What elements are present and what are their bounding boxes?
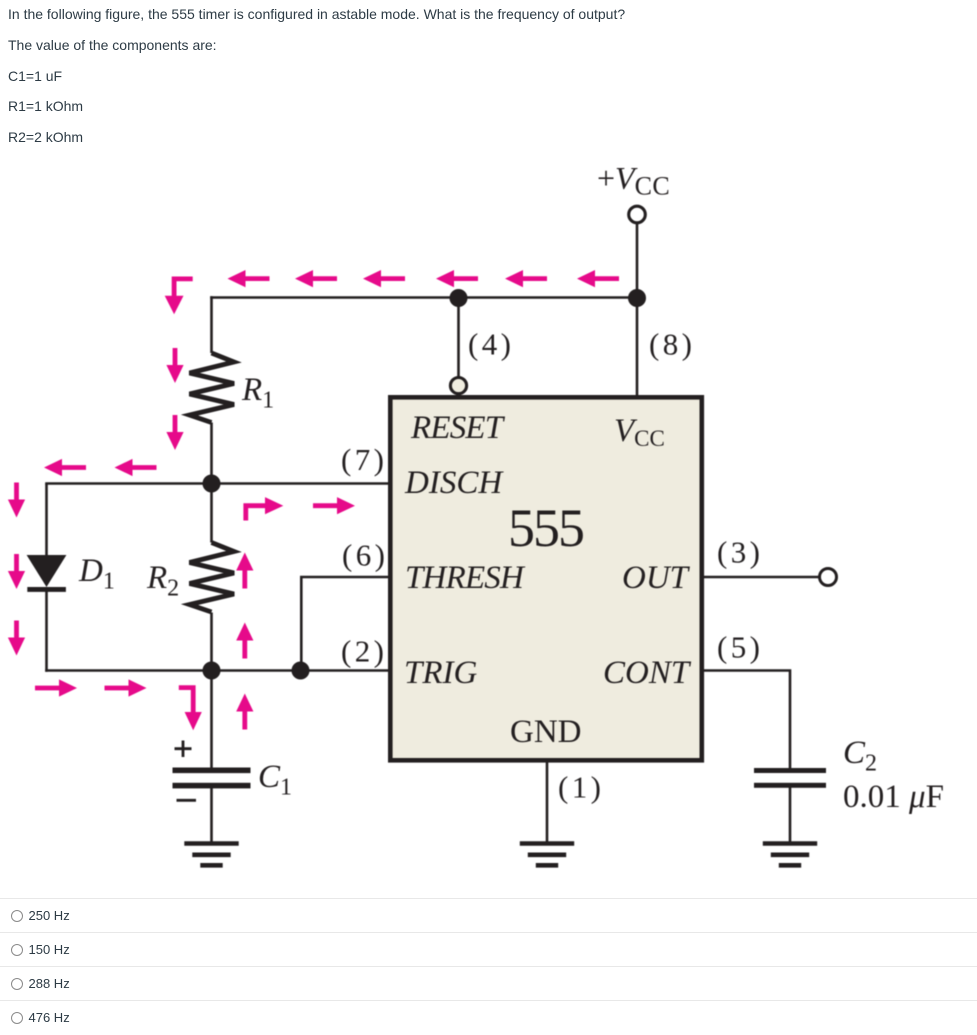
corner arrow top-left (down) [174,279,193,296]
C1 minus sign [177,799,197,802]
arrow up beside R2 top [236,553,253,589]
resistor R2 [190,543,235,613]
corner arrow into pin7 (right) [246,506,266,521]
node junction top pin4 [450,289,468,307]
wire R1 to DISCH node [210,423,213,485]
555 timer box U1 [390,397,702,760]
arrow top rail 4 [436,270,478,287]
current flow arrows (magenta) [8,270,619,730]
arrow down far-left 1 [8,483,25,518]
wire left vertical to R1 [210,296,213,353]
wire GND pin 1 [546,762,549,843]
arrow top rail 5 [505,270,547,287]
terminal pin 4 reset [450,378,466,394]
wire pin 4 drop [457,298,460,380]
svg-text:DISCH: DISCH [404,465,504,501]
svg-text:D1: D1 [78,553,115,595]
svg-text:C1: C1 [258,759,292,801]
wire left vertical to diode [45,484,48,557]
svg-text:0.01 μF: 0.01 μF [843,779,944,815]
diode D1 [27,555,67,592]
svg-text:(1): (1) [558,770,604,805]
arrow down R1 column 2 [166,415,183,450]
arrow up beside R2 bottom [236,623,253,659]
arrow top rail 1 [228,270,270,287]
arrow top rail 6 [577,270,619,287]
ground (C2) [763,844,817,866]
node junction TRIG left [203,662,221,680]
capacitor C1 [173,768,251,789]
C1 plus sign [175,741,192,758]
wire DISCH horizontal pin 7 [45,482,390,485]
answer options [0,898,977,933]
svg-text:(6): (6) [342,538,388,573]
arrow left DISCH row 2 [115,459,157,476]
wire C2 to ground [789,787,792,843]
arrow top rail 2 [295,270,337,287]
wire diode to bottom rail [45,590,48,672]
wire THRESH pin 6 [301,577,390,671]
svg-text:(4): (4) [468,327,514,362]
node junction DISCH [203,475,221,493]
svg-text:(8): (8) [649,327,695,362]
svg-text:(5): (5) [717,630,763,665]
node junction TRIG right [292,662,310,680]
svg-text:THRESH: THRESH [405,560,526,596]
resistor R1 [190,353,235,423]
arrow left DISCH row 1 [44,459,86,476]
svg-text:GND: GND [510,714,582,750]
svg-text:C2: C2 [843,735,877,777]
arrow right bottom rail 2 [105,679,147,696]
svg-text:RESET: RESET [410,410,506,446]
wire top horizontal [210,296,637,299]
ground (C1) [184,844,238,866]
ground (pin 1) [520,844,574,866]
arrow right toward pin7 [313,497,355,514]
svg-text:555: 555 [508,498,583,558]
svg-text:(7): (7) [341,442,387,477]
question text [0,0,977,1]
wire Vcc terminal to pin 8 [636,223,639,396]
svg-text:OUT: OUT [622,560,691,596]
arrow down far-left 2 [8,554,25,589]
svg-text:(3): (3) [717,535,763,570]
arrow down far-left 3 [8,621,25,656]
svg-text:+VCC: +VCC [597,160,670,201]
arrow right bottom rail 1 [35,679,77,696]
svg-text:R1: R1 [241,372,274,414]
svg-text:TRIG: TRIG [404,655,478,691]
arrow top rail 3 [363,270,405,287]
wire C1 to ground [210,788,213,843]
capacitor C2 [754,768,826,788]
svg-text:(2): (2) [341,634,387,669]
wire bottom node to C1 [210,671,213,770]
arrow down R1 column 1 [166,348,183,383]
arrow up beside C1 [236,694,253,730]
terminal +Vcc [629,206,646,223]
wire OUT pin 3 [704,576,820,579]
wire bottom rail TRIG pin 2 [45,669,390,672]
wire CONT pin 5 [704,671,790,770]
svg-text:R2: R2 [146,560,179,602]
wire R2 to bottom rail [210,613,213,671]
corner arrow into C1 (down) [179,688,193,712]
svg-text:CONT: CONT [603,655,692,691]
wire DISCH node to R2 [210,484,213,543]
node junction top pin8 [628,289,646,307]
terminal output pin 3 [820,569,837,586]
